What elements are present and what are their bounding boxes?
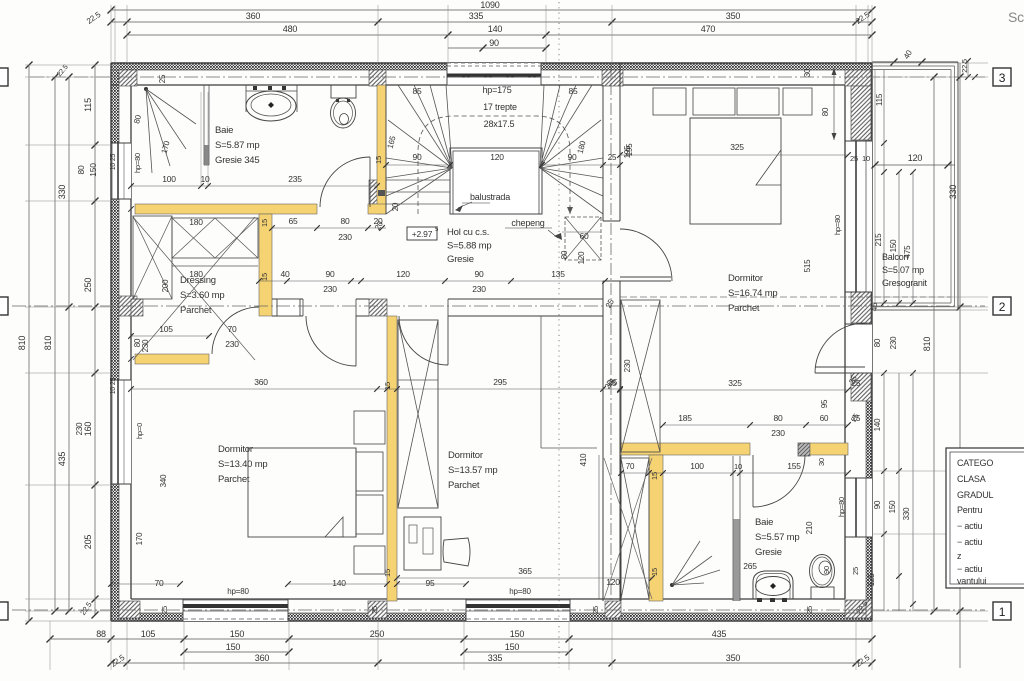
svg-text:210: 210	[805, 521, 814, 534]
svg-text:25: 25	[609, 378, 618, 387]
svg-text:100: 100	[162, 174, 176, 184]
svg-text:hp=80: hp=80	[833, 215, 842, 235]
svg-text:Gresie: Gresie	[447, 254, 474, 265]
svg-text:350: 350	[726, 653, 741, 663]
svg-text:250: 250	[83, 278, 93, 293]
svg-text:150: 150	[230, 629, 245, 639]
svg-text:S=5.57 mp: S=5.57 mp	[755, 532, 799, 543]
svg-text:40: 40	[280, 269, 290, 279]
svg-text:480: 480	[283, 24, 298, 34]
svg-text:340: 340	[159, 474, 168, 487]
svg-text:295: 295	[493, 377, 507, 387]
svg-text:200: 200	[161, 279, 170, 292]
svg-text:515: 515	[803, 259, 812, 272]
svg-text:205: 205	[83, 535, 93, 550]
svg-text:Sc: Sc	[1008, 9, 1024, 25]
svg-text:Dormitor: Dormitor	[218, 444, 253, 455]
svg-text:15: 15	[383, 569, 392, 577]
svg-text:Baie: Baie	[755, 517, 773, 528]
svg-text:balustrada: balustrada	[470, 192, 510, 202]
svg-text:25: 25	[852, 379, 861, 388]
svg-text:30: 30	[803, 68, 812, 77]
svg-text:810: 810	[43, 336, 53, 351]
svg-text:10: 10	[200, 174, 210, 184]
svg-text:120: 120	[908, 153, 923, 163]
svg-text:S=5.07 mp: S=5.07 mp	[882, 265, 924, 275]
svg-text:185: 185	[678, 413, 692, 423]
svg-text:80: 80	[773, 413, 783, 423]
svg-text:Gresie: Gresie	[755, 547, 782, 558]
svg-text:S=5.87 mp: S=5.87 mp	[215, 140, 259, 151]
svg-text:hp=80: hp=80	[227, 587, 249, 596]
svg-text:265: 265	[743, 561, 757, 571]
svg-text:10: 10	[862, 154, 870, 163]
svg-text:S=16.74 mp: S=16.74 mp	[728, 288, 778, 299]
svg-text:230: 230	[771, 428, 785, 438]
svg-text:Parchet: Parchet	[180, 305, 212, 316]
svg-text:250: 250	[370, 629, 385, 639]
svg-text:115: 115	[875, 93, 884, 106]
svg-text:330: 330	[902, 507, 911, 520]
svg-text:1090: 1090	[480, 0, 499, 10]
svg-text:150: 150	[510, 629, 525, 639]
svg-text:105: 105	[159, 324, 173, 334]
svg-text:hp=80: hp=80	[837, 497, 846, 517]
svg-text:S=5.88 mp: S=5.88 mp	[447, 241, 491, 252]
svg-text:140: 140	[488, 24, 503, 34]
svg-text:vantului: vantului	[957, 576, 987, 586]
svg-text:350: 350	[726, 11, 741, 21]
svg-text:Pentru: Pentru	[957, 505, 983, 515]
svg-text:90: 90	[873, 500, 882, 509]
svg-text:10 25: 10 25	[110, 153, 117, 170]
svg-text:15: 15	[260, 273, 269, 281]
svg-text:195: 195	[625, 143, 634, 156]
svg-text:Balcon: Balcon	[882, 252, 909, 262]
svg-text:140: 140	[873, 418, 882, 431]
svg-text:160: 160	[83, 422, 93, 437]
svg-text:25: 25	[158, 74, 167, 83]
svg-text:435: 435	[712, 629, 727, 639]
svg-text:22.5: 22.5	[960, 59, 969, 73]
svg-text:70: 70	[626, 462, 635, 471]
svg-text:150: 150	[88, 163, 98, 177]
svg-text:230: 230	[75, 422, 84, 435]
svg-text:hp=175: hp=175	[482, 85, 511, 95]
svg-text:180: 180	[189, 217, 203, 227]
svg-text:90: 90	[822, 566, 831, 574]
svg-text:810: 810	[922, 337, 932, 352]
svg-text:25: 25	[370, 606, 379, 614]
svg-text:25: 25	[805, 606, 814, 614]
svg-text:60: 60	[820, 414, 829, 423]
svg-text:− actiu: − actiu	[957, 564, 983, 574]
svg-text:30: 30	[817, 458, 826, 466]
svg-text:20: 20	[391, 202, 400, 211]
svg-text:hp=0: hp=0	[135, 423, 144, 439]
svg-text:Dormitor: Dormitor	[448, 450, 483, 461]
svg-text:215: 215	[874, 233, 883, 246]
svg-text:360: 360	[255, 653, 270, 663]
svg-text:100: 100	[690, 461, 704, 471]
svg-text:65: 65	[288, 216, 298, 226]
svg-text:S=13.40 mp: S=13.40 mp	[218, 459, 268, 470]
svg-text:80: 80	[76, 165, 86, 175]
svg-text:25: 25	[850, 154, 858, 163]
svg-text:z: z	[957, 551, 962, 561]
svg-text:17 trepte: 17 trepte	[483, 102, 517, 112]
svg-text:15: 15	[260, 219, 269, 227]
svg-text:hp=80: hp=80	[509, 587, 531, 596]
svg-text:95: 95	[425, 578, 435, 588]
svg-text:85: 85	[568, 86, 578, 96]
svg-text:230: 230	[323, 284, 337, 294]
svg-text:GRADUL: GRADUL	[957, 490, 994, 500]
svg-text:Baie: Baie	[215, 125, 233, 136]
svg-text:85: 85	[412, 86, 422, 96]
svg-text:CATEGO: CATEGO	[957, 458, 993, 468]
svg-text:435: 435	[57, 452, 67, 467]
svg-text:Hol cu c.s.: Hol cu c.s.	[447, 227, 489, 238]
svg-text:810: 810	[17, 336, 27, 351]
svg-text:80: 80	[340, 216, 350, 226]
svg-text:150: 150	[505, 642, 520, 652]
svg-text:90: 90	[474, 269, 484, 279]
svg-text:+2.97: +2.97	[412, 229, 433, 239]
svg-text:140: 140	[332, 578, 346, 588]
svg-text:120: 120	[577, 251, 586, 264]
svg-text:125: 125	[867, 573, 876, 586]
svg-text:470: 470	[701, 24, 716, 34]
svg-text:Parchet: Parchet	[218, 474, 250, 485]
svg-text:90: 90	[567, 152, 577, 162]
svg-text:25: 25	[852, 414, 861, 423]
svg-text:80: 80	[821, 107, 830, 116]
svg-text:Parchet: Parchet	[728, 303, 760, 314]
svg-text:330: 330	[948, 185, 958, 200]
svg-text:230: 230	[889, 336, 898, 349]
svg-text:90: 90	[325, 269, 335, 279]
svg-text:S=3.60 mp: S=3.60 mp	[180, 290, 224, 301]
svg-text:− actiu: − actiu	[957, 521, 983, 531]
svg-text:15: 15	[650, 472, 659, 480]
svg-text:325: 325	[728, 378, 742, 388]
svg-text:10 25: 10 25	[110, 377, 117, 394]
svg-text:25: 25	[160, 606, 169, 614]
svg-text:115: 115	[83, 98, 93, 112]
svg-text:28x17.5: 28x17.5	[484, 119, 515, 129]
svg-text:330: 330	[57, 185, 67, 200]
svg-text:Gresogranit: Gresogranit	[882, 278, 928, 288]
svg-text:155: 155	[787, 461, 801, 471]
svg-text:105: 105	[141, 629, 156, 639]
svg-text:365: 365	[518, 566, 532, 576]
svg-text:CLASA: CLASA	[957, 474, 986, 484]
svg-text:15: 15	[374, 156, 383, 164]
svg-text:hp=80: hp=80	[133, 153, 142, 173]
svg-text:335: 335	[488, 653, 503, 663]
svg-text:80: 80	[560, 250, 569, 259]
svg-text:95: 95	[820, 399, 829, 408]
svg-text:25: 25	[591, 606, 600, 614]
svg-text:88: 88	[96, 629, 106, 639]
svg-text:80: 80	[873, 338, 882, 347]
svg-text:230: 230	[623, 359, 632, 372]
svg-text:170: 170	[135, 532, 144, 545]
svg-text:325: 325	[730, 142, 744, 152]
svg-text:2: 2	[999, 300, 1006, 314]
svg-text:70: 70	[227, 324, 237, 334]
svg-text:1: 1	[999, 605, 1006, 619]
svg-text:230: 230	[141, 339, 150, 352]
svg-text:230: 230	[225, 339, 239, 349]
svg-text:80: 80	[133, 338, 142, 347]
svg-text:335: 335	[469, 11, 484, 21]
svg-text:410: 410	[579, 453, 588, 466]
svg-text:90: 90	[412, 152, 422, 162]
svg-text:230: 230	[472, 284, 486, 294]
svg-text:25: 25	[851, 567, 860, 575]
svg-text:Dormitor: Dormitor	[728, 273, 763, 284]
svg-text:90: 90	[489, 38, 499, 48]
svg-text:230: 230	[338, 232, 352, 242]
svg-text:chepeng: chepeng	[511, 218, 544, 228]
svg-text:60: 60	[579, 231, 589, 241]
svg-text:Gresie 345: Gresie 345	[215, 155, 259, 166]
svg-text:15: 15	[650, 568, 659, 576]
svg-text:25: 25	[608, 153, 617, 162]
svg-text:235: 235	[288, 174, 302, 184]
svg-text:− actiu: − actiu	[957, 537, 983, 547]
svg-text:S=13.57 mp: S=13.57 mp	[448, 465, 498, 476]
svg-text:150: 150	[226, 642, 241, 652]
svg-text:150: 150	[888, 500, 897, 513]
svg-text:360: 360	[254, 377, 268, 387]
svg-text:Parchet: Parchet	[448, 480, 480, 491]
svg-text:150: 150	[889, 239, 898, 252]
svg-text:3: 3	[999, 71, 1006, 85]
svg-text:120: 120	[396, 269, 410, 279]
svg-text:Dressing: Dressing	[180, 275, 216, 286]
svg-text:120: 120	[606, 577, 620, 587]
svg-text:70: 70	[154, 578, 164, 588]
svg-text:360: 360	[246, 11, 261, 21]
svg-text:120: 120	[490, 152, 504, 162]
svg-text:10: 10	[734, 462, 742, 471]
svg-text:135: 135	[551, 269, 565, 279]
